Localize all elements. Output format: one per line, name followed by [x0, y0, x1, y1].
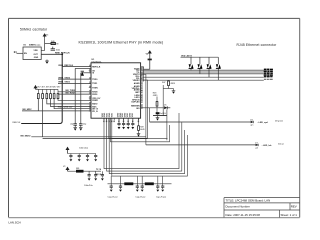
svg-text:49R9: 49R9 — [170, 83, 175, 85]
wire XI to U1 — [81, 72, 91, 74]
svg-text:grn: grn — [251, 123, 254, 126]
capacitor C80 with ground — [101, 171, 104, 180]
svg-text:V3: V3 — [63, 166, 65, 168]
TVS diode D2 — [198, 57, 203, 74]
U1 right pin names — [131, 67, 140, 110]
oscillator output wire to REFCLK bus — [41, 53, 62, 55]
oscillator X1 body — [23, 44, 41, 59]
REFCLK vertical bus wire — [21, 54, 62, 123]
capacitor C79 with ground — [94, 171, 97, 180]
ground for C62 — [79, 128, 83, 131]
svg-text:50MHz oscillator: 50MHz oscillator — [20, 27, 48, 31]
capacitor C73 with ground — [161, 184, 164, 192]
wire MII_TXD1 to U1 — [58, 82, 91, 84]
svg-text:NWAYEN: NWAYEN — [131, 104, 140, 107]
wire center tap rect upper — [109, 119, 168, 139]
svg-text:D7: D7 — [255, 142, 257, 144]
U1 left pin stubs — [89, 67, 91, 111]
resistor R46 — [57, 89, 59, 98]
wire bottom RC rail — [108, 183, 172, 185]
svg-text:MII_MDC: MII_MDC — [23, 109, 33, 111]
junction dot REFCLK — [61, 53, 63, 55]
protection rail wire — [181, 56, 219, 58]
svg-text:RMII_TXD1: RMII_TXD1 — [59, 82, 71, 84]
svg-text:AGND: AGND — [134, 82, 140, 85]
svg-text:R47: R47 — [162, 82, 165, 84]
resistor R44 — [50, 89, 52, 98]
svg-text:Cap+R par: Cap+R par — [135, 196, 145, 199]
wire power flag to U1 top pin — [141, 67, 150, 69]
wire TX pair fill band — [143, 71, 264, 74]
wire RX- to RJ45 — [141, 79, 264, 81]
svg-text:DUPLEX: DUPLEX — [131, 101, 140, 103]
wire MII_MDIO long lower wire — [31, 136, 146, 138]
svg-text:MII_RXD0: MII_RXD0 — [66, 92, 77, 94]
capacitor C70 with ground — [136, 184, 139, 192]
TVS diode D1 — [189, 57, 194, 70]
svg-text:VDDRX: VDDRX — [133, 80, 141, 82]
svg-text:100n (4x): 100n (4x) — [79, 148, 88, 150]
capacitor C78 with ground — [88, 171, 91, 180]
ground under oscillator — [45, 60, 49, 64]
wire XO to U1 — [75, 67, 91, 69]
power flag V3A ferrite branch — [66, 167, 69, 171]
svg-text:PD_N: PD_N — [92, 111, 98, 113]
svg-text:VDD: VDD — [111, 112, 113, 117]
wire lower parallel wire to chip right vertical — [43, 137, 148, 139]
svg-text:REFCLK: REFCLK — [13, 122, 22, 124]
resistor R50 — [124, 182, 133, 185]
svg-text:FB1: FB1 — [76, 168, 79, 170]
capacitor C65 with ground — [122, 119, 125, 130]
wire stub cap drop XO — [74, 68, 76, 123]
LED1 connector symbol — [255, 142, 258, 149]
svg-text:1n/2kV: 1n/2kV — [160, 113, 167, 115]
wire REFCLK to U1 — [62, 66, 91, 68]
resistor R48 — [153, 93, 158, 113]
RJ45 shield label — [264, 79, 273, 80]
capacitor C75 with ground — [78, 154, 81, 162]
svg-text:REV: REV — [291, 205, 297, 209]
capacitor C74 with ground — [69, 154, 72, 162]
power flag +3V3 above oscillator — [43, 34, 46, 38]
svg-text:TXEN: TXEN — [92, 87, 98, 89]
U1 left pin numbers — [89, 65, 90, 111]
svg-text:GND: GND — [34, 57, 39, 59]
U1 right pin stubs — [141, 69, 143, 108]
wire LED1 long — [146, 144, 256, 146]
wire RMII_RXD0 to U1 — [58, 93, 91, 95]
pull-up rail wire — [36, 88, 59, 90]
U1 bottom pin numbers — [103, 121, 139, 123]
svg-text:100n: 100n — [56, 50, 60, 52]
resistor R49 ISET — [137, 119, 145, 137]
svg-text:D6: D6 — [250, 119, 252, 121]
svg-text:22p: 22p — [83, 124, 86, 126]
wire TXM down — [107, 119, 182, 172]
oscillator X1 pin names — [24, 50, 39, 59]
svg-text:TXD0: TXD0 — [92, 79, 98, 81]
capacitor C71 with ground — [141, 184, 144, 192]
svg-text:Sheet: 1 of 1: Sheet: 1 of 1 — [281, 213, 298, 217]
svg-text:TX_M: TX_M — [96, 169, 101, 171]
svg-text:RXER: RXER — [92, 100, 98, 102]
ground for C61 — [73, 128, 77, 131]
svg-text:50MHz osc: 50MHz osc — [29, 44, 41, 46]
svg-text:Cap+R par: Cap+R par — [156, 196, 166, 199]
capacitor C72 with ground — [156, 184, 159, 192]
svg-text:6K49: 6K49 — [140, 129, 144, 131]
svg-text:4K7: 4K7 — [53, 87, 56, 89]
LED0 connector symbol — [250, 119, 253, 126]
ferrite bead FB1 — [68, 168, 102, 173]
resistor R43 — [46, 89, 48, 98]
svg-text:Document Number: Document Number — [226, 205, 250, 209]
power flag for pull-up rail — [34, 86, 37, 90]
U1 bottom pin names group1 — [102, 112, 134, 117]
capacitor C76 with ground — [86, 154, 89, 162]
capacitor C60 on oscillator supply — [51, 47, 55, 51]
svg-text:VDD: VDD — [132, 112, 134, 117]
capacitor C68 with ground — [110, 184, 113, 192]
wire RMII_RXD1 from resistor R46 to U1 — [58, 99, 91, 101]
resistor R41 — [37, 89, 39, 98]
wire MII_MDC long wire to U1 — [22, 110, 91, 112]
svg-text:TITLE: LPC2468 OEM Board: LAN: TITLE: LPC2468 OEM Board: LAN — [226, 199, 271, 203]
IC U1 KSZ8001L body — [91, 63, 141, 118]
svg-text:RMII_REFCLK: RMII_REFCLK — [55, 52, 70, 54]
capacitor C64 with ground — [117, 119, 120, 130]
resistor R47 — [162, 81, 175, 89]
svg-text:22p: 22p — [70, 124, 73, 126]
wire U1 right pin down vertical a — [141, 75, 146, 145]
wire stubs RC row to bundle — [121, 176, 163, 184]
svg-text:link act: link act — [278, 143, 284, 146]
svg-text:VDD: VDD — [34, 50, 39, 52]
resistor R51 — [145, 182, 154, 185]
capacitor C67 with ground — [131, 119, 134, 130]
TVS diode D4 — [216, 57, 221, 80]
svg-text:left green: left green — [275, 120, 283, 123]
U1 left pin names — [92, 66, 101, 112]
wire U1 right pin down vertical b — [141, 80, 148, 138]
wire RMII_RXER from resistor R44 to U1 — [51, 99, 92, 107]
wire from U1 VDDA pin to terminations — [143, 69, 145, 81]
wire stub R41 to MDC wire — [37, 99, 39, 111]
U1 top pin power flag — [148, 51, 151, 69]
decoupling rail wire — [68, 153, 96, 155]
wire termination vertical — [162, 85, 164, 115]
power flag V3 decoupling — [66, 147, 69, 153]
wire LED0 long — [150, 121, 251, 123]
svg-text:100n/10u: 100n/10u — [84, 185, 94, 187]
wire U1 NWAYEN pin to diode — [141, 107, 164, 109]
capacitor C66 with ground — [127, 119, 130, 130]
svg-text:KSZ8001L 100/10M Ethernet PHY: KSZ8001L 100/10M Ethernet PHY (in RMII m… — [79, 40, 164, 44]
svg-text:Cap+R par: Cap+R par — [108, 196, 118, 199]
resistor R40 on oscillator supply — [45, 41, 60, 46]
wire MII_TXEN to U1 — [58, 91, 91, 93]
wire center tap rect lower — [111, 119, 170, 142]
svg-text:49R9: 49R9 — [153, 95, 158, 97]
svg-text:→LED_lnk: →LED_lnk — [261, 145, 272, 147]
wire RXP down — [109, 119, 184, 174]
capacitor C61 — [73, 124, 77, 128]
svg-text:TXD1: TXD1 — [92, 83, 98, 85]
U1 right pin numbers — [141, 67, 142, 108]
svg-text:RJ45 Ethernet connector: RJ45 Ethernet connector — [237, 43, 278, 47]
TVS diode D3 — [207, 57, 212, 77]
wire RMII_CRSDV from resistor R43 to U1 — [47, 99, 91, 104]
svg-text:4K7: 4K7 — [37, 87, 40, 89]
ground for termination — [172, 89, 176, 94]
wire to oscillator enable pin — [17, 52, 24, 54]
svg-text:D5: D5 — [164, 105, 166, 107]
wire MII_TXD0 to U1 — [58, 78, 91, 80]
U1 bottom pin stubs — [104, 118, 139, 120]
capacitor C63 body — [153, 112, 167, 115]
diode D5 — [164, 105, 170, 110]
RJ45 J1 pin label block — [264, 69, 273, 78]
svg-text:RMII_REFCLK: RMII_REFCLK — [59, 65, 74, 67]
capacitor C77 with ground — [94, 154, 97, 162]
wire power to oscillator VDD — [41, 38, 44, 50]
svg-text:RXD1: RXD1 — [92, 94, 98, 96]
wire termination loop right vertical — [166, 110, 168, 141]
resistor R45 — [53, 89, 55, 98]
wire stub rail to bundle — [110, 176, 112, 184]
svg-text:LAN.SCH: LAN.SCH — [9, 221, 21, 225]
wire INT from resistor R45 to U1 — [54, 99, 91, 109]
svg-text:ISET: ISET — [135, 92, 140, 94]
wire TX+ to RJ45 — [141, 69, 264, 71]
ground for C63 — [156, 116, 160, 121]
wire TX- to RJ45 — [141, 73, 264, 75]
capacitor C69 with ground — [119, 184, 122, 192]
svg-text:→LED_spd: →LED_spd — [257, 122, 269, 124]
svg-text:Date: 2007-11-15 15:25:08: Date: 2007-11-15 15:25:08 — [226, 213, 261, 217]
page border frame — [9, 18, 300, 217]
svg-text:4K7: 4K7 — [42, 87, 45, 89]
wire stub R42 down to MDIO wire — [42, 99, 44, 137]
wire RXM down — [112, 119, 188, 177]
resistor R42 — [42, 89, 44, 98]
svg-text:4K7: 4K7 — [57, 87, 60, 89]
wire RX+ to RJ45 — [141, 76, 264, 78]
svg-text:RMII_TXD0: RMII_TXD0 — [59, 77, 71, 79]
svg-text:ISO: ISO — [136, 108, 140, 110]
diode D8 near U1 XI pin — [81, 71, 84, 76]
wire stub cap drop XI — [80, 73, 82, 124]
wire termination loop left — [150, 108, 167, 122]
title block — [224, 198, 300, 218]
wire TXP down — [104, 113, 179, 169]
svg-text:REFCLK: REFCLK — [92, 66, 101, 68]
capacitor C62 — [79, 124, 83, 128]
svg-text:MII_MDIO: MII_MDIO — [21, 136, 31, 138]
ferrite bead FB2 on U1 supply — [148, 59, 152, 61]
